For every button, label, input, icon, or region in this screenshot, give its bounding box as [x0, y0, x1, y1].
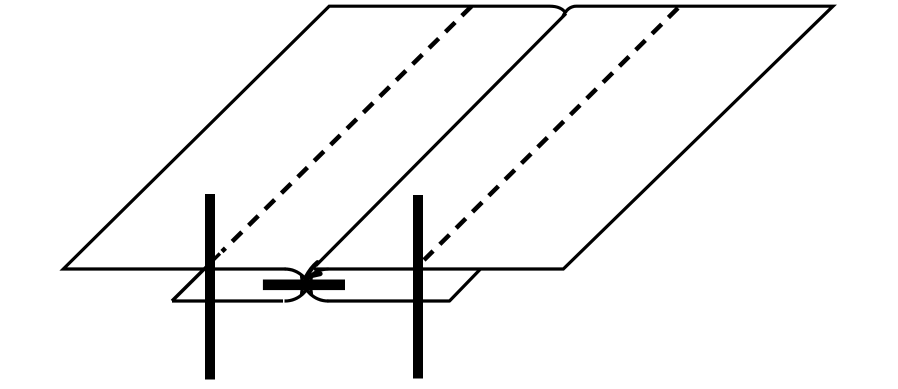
left loop bottom edge — [172, 299, 283, 302]
right sheet — [314, 6, 833, 269]
left loop top-edge arc into pinch — [285, 269, 312, 296]
thick horizontal bar — [263, 280, 345, 291]
right loop bottom edge and slanted end — [327, 269, 481, 301]
right vertical bar — [413, 195, 423, 379]
left crease dashed line — [222, 6, 472, 251]
right loop top-edge arc into pinch — [302, 269, 329, 296]
fold edge (shared diagonal) — [316, 14, 566, 266]
left vertical bar — [205, 194, 215, 380]
left loop bottom-edge arc into pinch — [285, 274, 312, 301]
arrowhead on fold edge — [306, 263, 320, 278]
right crease dashed line — [424, 8, 678, 260]
left crease solid lower segment — [172, 254, 220, 302]
left sheet — [63, 6, 566, 269]
right loop bottom-edge arc into pinch — [302, 274, 329, 301]
